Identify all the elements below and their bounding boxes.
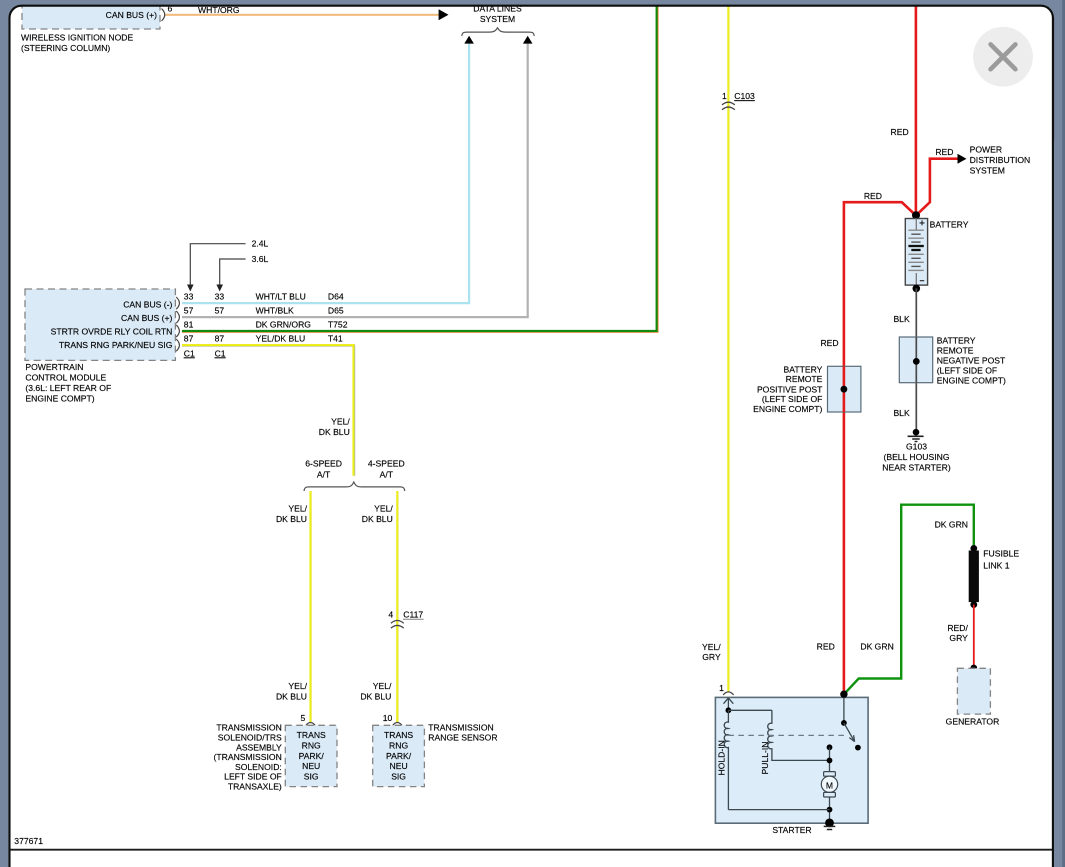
label G103 (BELL HOUSING NEAR STARTER): [882, 442, 951, 473]
pin numbers column 1: [184, 291, 195, 358]
svg-text:1: 1: [719, 683, 724, 693]
svg-text:BATTERY: BATTERY: [784, 364, 823, 374]
svg-text:YEL/DK BLU: YEL/DK BLU: [256, 333, 306, 343]
wire label YEL/DK BLU upper: [319, 417, 351, 437]
label BATTERY REMOTE POSITIVE POST: [753, 364, 823, 414]
starter motor branch: [827, 744, 833, 772]
2.4L pointer: [187, 239, 269, 292]
svg-text:ENGINE COMPT): ENGINE COMPT): [25, 393, 94, 403]
label 6-SPEED A/T: [305, 459, 342, 480]
svg-text:D64: D64: [328, 291, 344, 301]
svg-text:1: 1: [722, 91, 727, 101]
svg-text:WHT/LT BLU: WHT/LT BLU: [256, 291, 306, 301]
wire label RED upper: [891, 127, 909, 137]
svg-text:CAN BUS (+): CAN BUS (+): [121, 313, 172, 323]
powertrain control module box: [25, 289, 175, 360]
junction node starter feed: [840, 691, 847, 698]
svg-text:YEL/: YEL/: [373, 681, 392, 691]
junction node fusible link top: [970, 545, 977, 552]
connector C103: [722, 91, 755, 110]
svg-text:YEL/: YEL/: [374, 503, 393, 513]
svg-text:377671: 377671: [14, 836, 43, 846]
svg-text:33: 33: [184, 291, 194, 301]
label WIRELESS IGNITION NODE (STEERING COLUMN): [21, 33, 133, 53]
svg-text:C1: C1: [215, 348, 226, 358]
battery B1: [905, 219, 927, 286]
wire label WHT/ORG: [198, 5, 240, 15]
arrow into DATA LINES SYSTEM: [439, 9, 449, 20]
svg-text:T41: T41: [328, 333, 343, 343]
wire DK GRN starter to fusible link: [844, 505, 974, 695]
svg-text:POWER: POWER: [970, 144, 1002, 154]
wire RED/GRY fusible link to generator: [973, 605, 975, 668]
label FUSIBLE LINK 1: [983, 548, 1019, 570]
wire YEL/GRY C103 vertical: [727, 0, 730, 692]
generator box: [957, 668, 990, 714]
svg-text:ENGINE COMPT): ENGINE COMPT): [937, 375, 1006, 385]
svg-text:CAN BUS (-): CAN BUS (-): [123, 299, 172, 309]
hold-in coil: [724, 710, 728, 809]
pin 10 transmission range sensor: [383, 713, 393, 723]
brace under data lines system: [462, 28, 534, 36]
arrowhead up gray wire: [523, 36, 533, 44]
wire label BLK upper: [893, 314, 910, 324]
svg-text:LEFT SIDE OF: LEFT SIDE OF: [224, 772, 282, 782]
svg-text:TRANS: TRANS: [384, 730, 413, 740]
svg-text:4-SPEED: 4-SPEED: [368, 459, 405, 469]
wire label RED/GRY: [947, 623, 968, 643]
svg-text:CONTROL MODULE: CONTROL MODULE: [25, 373, 106, 383]
svg-text:STARTER: STARTER: [772, 825, 811, 835]
svg-text:A/T: A/T: [317, 470, 331, 480]
svg-text:SIG: SIG: [391, 772, 406, 782]
junction node at battery positive: [912, 211, 920, 219]
svg-text:(3.6L: LEFT REAR OF: (3.6L: LEFT REAR OF: [25, 383, 111, 393]
starter bottom junction: [728, 807, 832, 813]
battery remote negative post box: [899, 337, 932, 383]
ground G103: [908, 429, 924, 442]
svg-text:PARK/: PARK/: [386, 751, 412, 761]
svg-text:NEU: NEU: [390, 761, 408, 771]
svg-text:TRANS: TRANS: [297, 730, 326, 740]
label POWER DISTRIBUTION SYSTEM: [970, 144, 1031, 175]
svg-text:YEL/: YEL/: [288, 503, 307, 513]
svg-text:NEAR STARTER): NEAR STARTER): [882, 463, 951, 473]
svg-text:HOLD-IN: HOLD-IN: [717, 740, 727, 775]
wire label DK GRN at starter: [860, 642, 893, 652]
wire CAN BUS (-) WHT/LT BLU D64: [182, 43, 469, 303]
svg-text:RNG: RNG: [389, 740, 408, 750]
svg-text:DK GRN: DK GRN: [935, 520, 968, 530]
svg-text:DK BLU: DK BLU: [276, 514, 307, 524]
svg-text:DK BLU: DK BLU: [362, 514, 393, 524]
arrowhead up cyan wire: [464, 36, 474, 44]
svg-text:DK GRN/ORG: DK GRN/ORG: [256, 319, 312, 329]
label BATTERY REMOTE NEGATIVE POST: [937, 335, 1006, 385]
svg-text:RED: RED: [891, 127, 909, 137]
pin 1 starter: [719, 683, 724, 693]
starter entry arrow pin 1: [724, 698, 734, 710]
pin 5 transmission solenoid: [301, 713, 306, 723]
wire label DK GRN upper: [935, 520, 968, 530]
wire label RED at positive post: [820, 338, 838, 348]
label POWERTRAIN CONTROL MODULE: [25, 362, 111, 403]
svg-text:SYSTEM: SYSTEM: [970, 166, 1005, 176]
pin entry arc starter: [723, 692, 733, 695]
wire label YEL/DK BLU lower right: [360, 681, 392, 701]
svg-text:RED: RED: [864, 191, 882, 201]
svg-text:BLK: BLK: [893, 408, 910, 418]
svg-text:57: 57: [184, 305, 194, 315]
svg-text:DISTRIBUTION: DISTRIBUTION: [970, 155, 1031, 165]
svg-text:T752: T752: [328, 319, 348, 329]
svg-text:3.6L: 3.6L: [252, 254, 269, 264]
wire label YEL/DK BLU below brace right: [362, 503, 394, 523]
separator line bottom: [10, 849, 1053, 851]
label TRANSMISSION SOLENOID/TRS ASSEMBLY: [214, 723, 283, 792]
svg-text:TRANSMISSION: TRANSMISSION: [428, 723, 493, 733]
pin entry arc transmission solenoid: [306, 723, 315, 726]
panel corner shadow: [960, 8, 1052, 140]
svg-text:TRANSAXLE): TRANSAXLE): [228, 782, 282, 792]
svg-text:DK BLU: DK BLU: [276, 691, 307, 701]
brace split 6-speed 4-speed: [304, 482, 405, 491]
svg-text:SOLENOID:: SOLENOID:: [235, 762, 282, 772]
label GENERATOR: [946, 717, 1000, 727]
svg-text:(TRANSMISSION: (TRANSMISSION: [214, 752, 282, 762]
svg-text:M: M: [826, 781, 833, 791]
battery remote positive post box: [828, 366, 861, 412]
fusible link 1: [969, 551, 979, 603]
junction node battery negative: [913, 285, 921, 293]
wireless ignition node box: [22, 0, 160, 29]
svg-text:PARK/: PARK/: [299, 751, 325, 761]
pull-in coil: [768, 710, 830, 760]
svg-text:A/T: A/T: [380, 470, 394, 480]
wire to pull-in coil: [728, 709, 772, 711]
starter junction node hold-in/pull-in: [726, 707, 732, 713]
svg-text:TRANSMISSION: TRANSMISSION: [216, 723, 281, 733]
svg-text:TRANS RNG PARK/NEU SIG: TRANS RNG PARK/NEU SIG: [59, 340, 173, 350]
wire CAN BUS (+) WHT/ORG from wireless ignition node to data lines system: [164, 14, 440, 16]
wire label RED at power distribution: [935, 147, 953, 157]
svg-text:D65: D65: [328, 305, 344, 315]
svg-text:FUSIBLE: FUSIBLE: [983, 548, 1019, 558]
starter motor M1: [821, 772, 837, 823]
wire label BLK lower: [893, 408, 910, 418]
circuit labels D64 D65 T752 T41: [328, 291, 348, 343]
svg-text:BATTERY: BATTERY: [937, 335, 976, 345]
svg-text:WIRELESS IGNITION NODE: WIRELESS IGNITION NODE: [21, 33, 133, 43]
wire RED battery feed vertical: [915, 0, 918, 216]
wire label YEL/DK BLU lower left: [276, 681, 308, 701]
wire YEL/DK BLU to transmission range sensor: [396, 491, 399, 723]
svg-text:(BELL HOUSING: (BELL HOUSING: [883, 452, 949, 462]
svg-text:POSITIVE POST: POSITIVE POST: [757, 384, 823, 394]
pin numbers column 2: [215, 291, 226, 358]
svg-text:(LEFT SIDE OF: (LEFT SIDE OF: [762, 394, 822, 404]
label TRANSMISSION RANGE SENSOR: [428, 723, 497, 743]
pin 6: [168, 3, 173, 13]
close button: [973, 27, 1033, 87]
svg-text:BATTERY: BATTERY: [930, 219, 969, 229]
svg-text:C117: C117: [403, 610, 423, 620]
svg-text:SYSTEM: SYSTEM: [480, 14, 515, 24]
svg-text:WHT/BLK: WHT/BLK: [256, 305, 294, 315]
pin entry arc transmission range sensor: [393, 723, 402, 726]
3.6L pointer: [216, 254, 268, 292]
svg-text:81: 81: [184, 319, 194, 329]
svg-text:87: 87: [215, 333, 225, 343]
svg-text:BLK: BLK: [893, 314, 910, 324]
svg-text:6-SPEED: 6-SPEED: [305, 459, 342, 469]
svg-text:RED: RED: [817, 642, 835, 652]
label DATA LINES SYSTEM: [473, 3, 522, 24]
svg-text:GENERATOR: GENERATOR: [946, 717, 1000, 727]
svg-text:YEL/: YEL/: [288, 681, 307, 691]
starter box: [715, 697, 868, 823]
svg-text:POWERTRAIN: POWERTRAIN: [25, 362, 83, 372]
connector C117: [388, 610, 423, 629]
svg-text:DK GRN: DK GRN: [860, 642, 893, 652]
label PULL-IN: [760, 742, 770, 775]
svg-text:87: 87: [184, 333, 194, 343]
svg-text:REMOTE: REMOTE: [937, 345, 974, 355]
dashed link line coils to switch: [728, 734, 845, 736]
wire STRTR OVRDE RLY COIL RTN DK GRN/ORG T752: [182, 0, 658, 332]
wire label YEL/GRY: [702, 642, 721, 662]
svg-text:SOLENOID/TRS: SOLENOID/TRS: [218, 733, 282, 743]
svg-text:57: 57: [215, 305, 225, 315]
svg-text:CAN BUS (+): CAN BUS (+): [106, 10, 157, 20]
starter switch: [841, 697, 861, 750]
starter ground: [824, 819, 836, 830]
svg-text:4: 4: [388, 610, 393, 620]
svg-text:YEL/: YEL/: [331, 417, 350, 427]
junction node fusible link bottom: [970, 601, 977, 608]
svg-text:REMOTE: REMOTE: [786, 374, 823, 384]
svg-text:YEL/: YEL/: [702, 642, 721, 652]
wire label YEL/DK BLU below brace left: [276, 503, 308, 523]
pin socket arcs PCM: [176, 297, 179, 351]
page number 377671: [14, 836, 43, 846]
svg-text:LINK 1: LINK 1: [983, 560, 1009, 570]
svg-text:(STEERING COLUMN): (STEERING COLUMN): [21, 43, 110, 53]
wire RED to battery remote positive post and starter: [844, 202, 916, 694]
svg-text:RED/: RED/: [947, 623, 968, 633]
svg-text:STRTR OVRDE RLY COIL RTN: STRTR OVRDE RLY COIL RTN: [51, 326, 173, 336]
svg-text:G103: G103: [906, 442, 927, 452]
svg-text:C1: C1: [184, 348, 195, 358]
transmission solenoid TRANS RNG PARK/NEU SIG box: [285, 725, 337, 786]
svg-text:RNG: RNG: [302, 740, 321, 750]
svg-text:GRY: GRY: [949, 633, 968, 643]
svg-text:RANGE SENSOR: RANGE SENSOR: [428, 733, 497, 743]
svg-text:ASSEMBLY: ASSEMBLY: [236, 742, 282, 752]
label HOLD-IN: [717, 740, 727, 775]
svg-text:DK BLU: DK BLU: [360, 691, 391, 701]
wire name labels: [256, 291, 312, 343]
svg-text:PULL-IN: PULL-IN: [760, 742, 770, 775]
wire RED to power distribution system: [916, 159, 959, 216]
svg-text:RED: RED: [820, 338, 838, 348]
svg-text:ENGINE COMPT): ENGINE COMPT): [753, 404, 822, 414]
arrow into power distribution system: [958, 154, 967, 164]
wire TRANS RNG PARK/NEU SIG YEL/DK BLU T41: [182, 345, 354, 476]
svg-text:2.4L: 2.4L: [252, 239, 269, 249]
wire label RED left branch: [864, 191, 882, 201]
svg-text:GRY: GRY: [702, 652, 721, 662]
label BATTERY: [930, 219, 969, 229]
svg-text:5: 5: [301, 713, 306, 723]
svg-text:RED: RED: [935, 147, 953, 157]
wire label RED at starter: [817, 642, 835, 652]
label 4-SPEED A/T: [368, 459, 405, 480]
svg-text:SIG: SIG: [304, 772, 319, 782]
svg-text:(LEFT SIDE OF: (LEFT SIDE OF: [937, 365, 997, 375]
svg-text:NEU: NEU: [302, 761, 320, 771]
transmission range sensor TRANS RNG PARK/NEU SIG box: [373, 725, 425, 786]
wire YEL/DK BLU to transmission solenoid: [310, 491, 313, 723]
pin socket arc at wireless ignition node: [162, 9, 165, 21]
svg-text:33: 33: [215, 291, 225, 301]
svg-text:C103: C103: [734, 91, 755, 101]
wire BLK battery to negative post: [915, 288, 917, 432]
label STARTER: [772, 825, 811, 835]
svg-text:DK BLU: DK BLU: [319, 427, 350, 437]
svg-text:NEGATIVE POST: NEGATIVE POST: [937, 355, 1006, 365]
junction node generator: [970, 665, 977, 672]
wire CAN BUS (+) WHT/BLK D65: [182, 43, 528, 317]
svg-text:10: 10: [383, 713, 393, 723]
screenshot right edge strip: [1062, 0, 1065, 867]
